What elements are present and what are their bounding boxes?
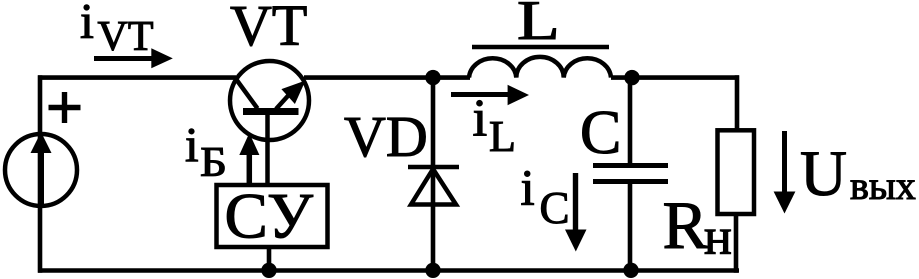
arrow U_out xyxy=(782,131,787,194)
wire: capacitor branch upper xyxy=(628,78,633,166)
arrow i_VT xyxy=(94,56,153,61)
inductor L arcs xyxy=(469,57,611,78)
svg-text:н: н xyxy=(704,209,732,266)
svg-text:R: R xyxy=(663,187,709,263)
wire: transistor base to control box xyxy=(265,112,270,187)
junction dot bottom diode xyxy=(425,263,440,278)
wire: left vertical (source branch) xyxy=(38,75,43,272)
plus sign xyxy=(49,105,81,110)
capacitor C bottom plate xyxy=(593,179,668,184)
wire: top right segment (inductor to load corner) xyxy=(611,75,739,80)
svg-text:вых: вых xyxy=(850,163,916,208)
wire: capacitor branch lower xyxy=(628,181,633,273)
svg-text:VT: VT xyxy=(230,0,307,58)
arrow i_C xyxy=(573,173,578,232)
wire: right vertical below resistor xyxy=(734,214,739,273)
wire: right vertical above resistor xyxy=(735,75,740,133)
svg-text:L: L xyxy=(489,112,516,161)
diode VD cathode bar xyxy=(408,165,459,170)
junction dot top diode xyxy=(425,70,440,85)
svg-text:i: i xyxy=(521,161,535,217)
wire: top left segment (source to transistor) xyxy=(38,75,236,80)
resistor Rn rectangle xyxy=(718,130,755,214)
transistor base bar xyxy=(243,108,299,115)
capacitor C top plate xyxy=(593,163,668,168)
transistor collector line xyxy=(235,77,258,109)
junction dot top capacitor xyxy=(624,70,639,85)
junction dot bottom control box xyxy=(261,263,276,278)
junction dot bottom capacitor xyxy=(623,263,638,278)
svg-text:U: U xyxy=(800,138,847,210)
svg-text:СУ: СУ xyxy=(225,181,314,253)
svg-text:C: C xyxy=(580,99,621,167)
current source circle xyxy=(5,134,77,206)
wire: control box to bottom rail xyxy=(267,248,272,273)
svg-text:Б: Б xyxy=(200,138,227,185)
arrow i_L xyxy=(451,92,509,97)
current source arrow xyxy=(38,150,44,207)
svg-text:VD: VD xyxy=(344,104,428,169)
svg-text:i: i xyxy=(80,0,94,49)
svg-text:C: C xyxy=(540,183,570,233)
wire: bottom rail xyxy=(38,268,739,272)
svg-text:i: i xyxy=(473,90,488,148)
L underline xyxy=(472,45,609,50)
svg-text:L: L xyxy=(517,0,560,51)
control box CY xyxy=(217,185,328,247)
wire: top middle segment (transistor to inductor) xyxy=(304,75,470,80)
svg-text:VT: VT xyxy=(98,14,154,60)
svg-text:i: i xyxy=(185,117,199,172)
transistor VT circle xyxy=(230,61,309,140)
diode VD triangle xyxy=(411,169,456,205)
arrow i_B xyxy=(247,153,253,183)
transistor emitter line with arrow xyxy=(276,93,291,110)
wire: diode branch vertical xyxy=(431,78,436,273)
